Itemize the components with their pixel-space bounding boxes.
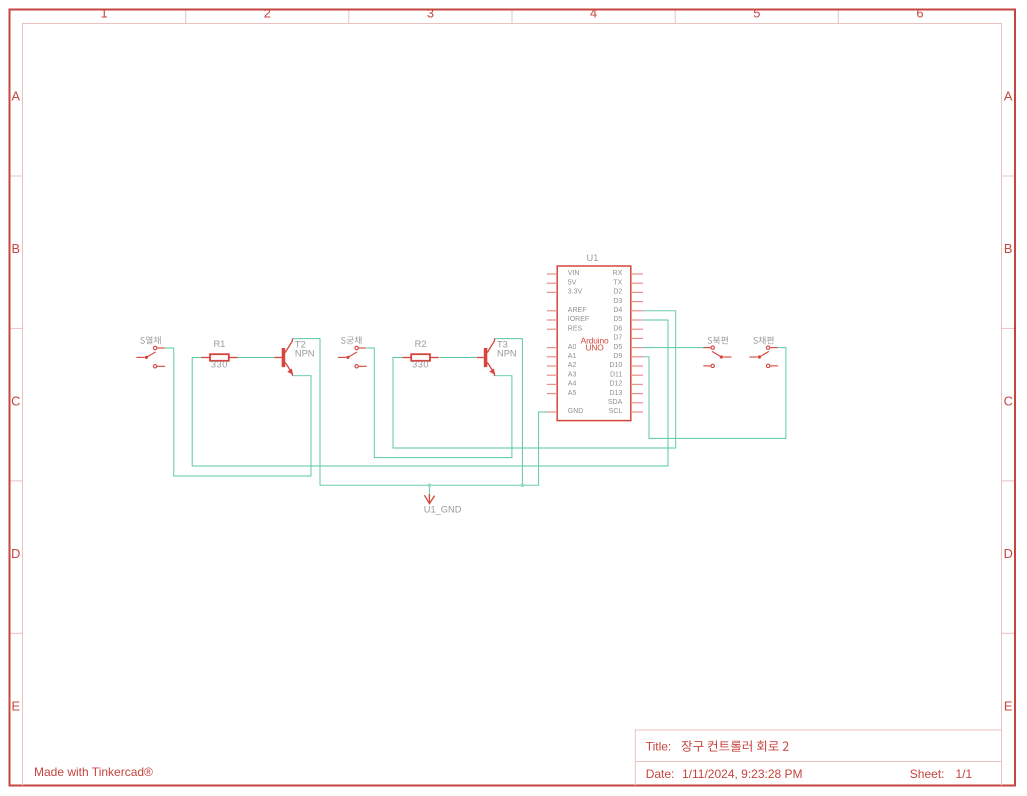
svg-text:4: 4 bbox=[590, 5, 597, 20]
svg-text:D5: D5 bbox=[613, 344, 622, 351]
svg-text:D: D bbox=[11, 546, 20, 561]
resistor R2 bbox=[402, 354, 438, 361]
svg-text:VIN: VIN bbox=[568, 270, 580, 277]
svg-text:SDA: SDA bbox=[608, 399, 623, 406]
svg-text:D12: D12 bbox=[609, 381, 622, 388]
svg-text:3.3V: 3.3V bbox=[568, 289, 583, 296]
wire R1 right to T2 base bbox=[238, 357, 275, 359]
svg-text:B: B bbox=[12, 241, 21, 256]
svg-text:D: D bbox=[1004, 546, 1013, 561]
svg-text:RES: RES bbox=[568, 325, 583, 332]
U1 left pin labels bbox=[568, 270, 589, 415]
svg-text:D7: D7 bbox=[613, 335, 622, 342]
svg-text:5V: 5V bbox=[568, 279, 577, 286]
svg-text:Date:: Date: bbox=[646, 767, 675, 781]
wire R2 right to T3 base bbox=[440, 357, 477, 359]
junction U1_GND tap on ground bus bbox=[428, 483, 432, 487]
svg-text:Made with Tinkercad®: Made with Tinkercad® bbox=[34, 765, 153, 779]
svg-text:2: 2 bbox=[264, 5, 271, 20]
svg-text:D11: D11 bbox=[610, 371, 622, 378]
switch S열채 bbox=[136, 346, 165, 368]
svg-text:B: B bbox=[1004, 241, 1013, 256]
svg-text:R2: R2 bbox=[415, 339, 427, 349]
U1 right pin labels bbox=[608, 270, 623, 415]
svg-text:AREF: AREF bbox=[568, 307, 587, 314]
wire S열채 to T2 emitter bbox=[165, 348, 312, 476]
svg-text:IOREF: IOREF bbox=[568, 316, 589, 323]
transistor T2 (NPN) bbox=[275, 339, 293, 376]
svg-text:RX: RX bbox=[613, 270, 623, 277]
svg-text:A: A bbox=[12, 89, 21, 104]
svg-text:R1: R1 bbox=[213, 339, 225, 349]
svg-text:D10: D10 bbox=[609, 362, 622, 369]
svg-text:5: 5 bbox=[753, 5, 760, 20]
svg-text:D3: D3 bbox=[613, 298, 622, 305]
svg-text:UNO: UNO bbox=[586, 342, 605, 352]
svg-text:C: C bbox=[11, 394, 20, 409]
title value 장구 컨트롤러 회로 2 bbox=[682, 740, 789, 751]
wire T3 collector to ground bus bbox=[494, 339, 523, 486]
svg-text:NPN: NPN bbox=[497, 348, 517, 358]
op-amp/IC U1 Arduino UNO body bbox=[557, 266, 631, 421]
svg-text:1/1: 1/1 bbox=[956, 767, 973, 781]
resistor R1 bbox=[201, 354, 237, 361]
label Arduino UNO bbox=[581, 335, 609, 352]
svg-text:D13: D13 bbox=[609, 390, 622, 397]
svg-text:E: E bbox=[1004, 699, 1013, 714]
U1 right pin stubs bbox=[631, 274, 643, 412]
svg-text:Title:: Title: bbox=[646, 739, 672, 753]
title block text bbox=[646, 739, 973, 780]
column numbers bbox=[101, 5, 924, 20]
switch S채편 bbox=[749, 346, 778, 368]
svg-text:D5: D5 bbox=[613, 316, 622, 323]
svg-text:D4: D4 bbox=[613, 307, 622, 314]
svg-text:A1: A1 bbox=[568, 353, 577, 360]
row letters bbox=[11, 89, 1013, 714]
svg-text:A0: A0 bbox=[568, 344, 577, 351]
svg-text:1/11/2024, 9:23:28 PM: 1/11/2024, 9:23:28 PM bbox=[682, 767, 803, 781]
svg-text:A5: A5 bbox=[568, 390, 577, 397]
wire U1 D4 to R2 left bbox=[393, 311, 676, 448]
switch S북편 bbox=[703, 346, 731, 368]
wire S궁채 to T3 emitter bbox=[367, 348, 512, 458]
svg-text:SCL: SCL bbox=[609, 408, 623, 415]
wire U1 D8 to S북편 bbox=[643, 347, 704, 349]
svg-text:A3: A3 bbox=[568, 371, 577, 378]
label S궁채 bbox=[341, 336, 361, 344]
wire U1 D5 to R1 left bbox=[192, 320, 668, 466]
svg-text:U1: U1 bbox=[587, 253, 599, 263]
transistor T3 (NPN) bbox=[477, 339, 495, 376]
label S채편 bbox=[753, 336, 773, 344]
svg-text:1: 1 bbox=[101, 5, 108, 20]
svg-text:C: C bbox=[1004, 394, 1013, 409]
ground U1_GND symbol bbox=[424, 494, 434, 504]
label S북편 bbox=[708, 336, 728, 344]
svg-text:330: 330 bbox=[211, 359, 228, 369]
wire T2 collector to ground bus to U1 GND pin bbox=[292, 339, 549, 486]
svg-text:3: 3 bbox=[427, 5, 434, 20]
svg-text:D6: D6 bbox=[613, 325, 622, 332]
svg-text:6: 6 bbox=[916, 5, 923, 20]
svg-text:D2: D2 bbox=[613, 289, 622, 296]
svg-text:Sheet:: Sheet: bbox=[910, 767, 945, 781]
switch S궁채 bbox=[338, 346, 367, 368]
label S열채 bbox=[140, 336, 160, 344]
wire U1 D9 to S채편 bbox=[643, 348, 786, 439]
svg-text:A4: A4 bbox=[568, 381, 577, 388]
U1 left pin stubs bbox=[547, 274, 557, 412]
svg-text:A: A bbox=[1004, 89, 1013, 104]
junction T3 collector on ground bus bbox=[521, 483, 525, 487]
wire ground bus to U1_GND symbol bbox=[428, 485, 430, 494]
svg-text:TX: TX bbox=[613, 279, 622, 286]
svg-text:A2: A2 bbox=[568, 362, 577, 369]
svg-text:U1_GND: U1_GND bbox=[424, 505, 462, 515]
svg-text:330: 330 bbox=[412, 359, 429, 369]
svg-text:E: E bbox=[12, 699, 21, 714]
title block bbox=[635, 730, 1001, 786]
svg-text:D9: D9 bbox=[613, 353, 622, 360]
svg-text:GND: GND bbox=[568, 408, 584, 415]
svg-text:NPN: NPN bbox=[295, 348, 315, 358]
